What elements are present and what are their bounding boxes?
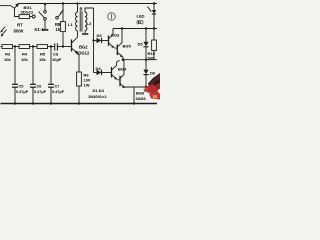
wire top rail left segment bbox=[0, 5, 11, 7]
diode D5 bbox=[145, 29, 147, 42]
wire BG1 base stem bbox=[15, 8, 20, 16]
resistor RT bbox=[19, 15, 30, 19]
wire BG2 emitter down bbox=[78, 54, 79, 72]
switch K1-1 bbox=[44, 4, 46, 11]
watermark red logo bbox=[144, 73, 161, 100]
svg-text:C8: C8 bbox=[53, 52, 59, 57]
transistor BG5 bbox=[116, 45, 118, 56]
svg-text:D4: D4 bbox=[96, 66, 102, 71]
secondary end bar bbox=[82, 33, 88, 35]
capacitor C7 bbox=[50, 47, 52, 85]
svg-text:C7: C7 bbox=[55, 85, 60, 89]
diode D3 bbox=[94, 40, 97, 42]
resistor R8 bbox=[61, 22, 66, 32]
node dot D3 junction bbox=[92, 39, 94, 41]
resistor R6 bbox=[77, 72, 82, 86]
node dot rail/transformer primary bbox=[76, 2, 78, 4]
svg-text:3DG12: 3DG12 bbox=[21, 10, 34, 15]
svg-text:BG2: BG2 bbox=[79, 45, 88, 50]
node dot bus1/D5 bbox=[145, 27, 147, 29]
svg-text:1N4001×2: 1N4001×2 bbox=[88, 94, 107, 99]
svg-text:3AD6: 3AD6 bbox=[136, 96, 147, 101]
svg-text:R5: R5 bbox=[40, 52, 46, 57]
svg-text:L1: L1 bbox=[68, 22, 73, 27]
svg-text:(红): (红) bbox=[137, 19, 145, 26]
capacitor C8 bbox=[54, 43, 56, 50]
wire bus2 bbox=[122, 59, 157, 61]
wire top rail right segment bbox=[18, 3, 157, 5]
svg-text:0.47μF: 0.47μF bbox=[16, 90, 29, 94]
wire bottom rail bbox=[1, 103, 158, 105]
svg-text:R3: R3 bbox=[5, 52, 11, 57]
node dot wire87/D6 bbox=[145, 86, 147, 88]
svg-text:BG4: BG4 bbox=[118, 67, 127, 72]
transformer core bbox=[79, 11, 81, 31]
svg-text:500: 500 bbox=[148, 55, 155, 60]
node dot rail/R8 bbox=[62, 2, 64, 4]
wire R8 top bbox=[62, 4, 64, 22]
svg-text:LED: LED bbox=[137, 14, 145, 19]
node dot rail/K1-1 bbox=[44, 3, 46, 5]
wire emitter bus y87 bbox=[123, 86, 151, 88]
svg-text:C6: C6 bbox=[37, 85, 42, 89]
node dot row/R8/base BG2 bbox=[62, 45, 64, 47]
resistor R5 bbox=[37, 45, 48, 49]
node dot bus2 left bbox=[122, 58, 125, 61]
svg-text:10k: 10k bbox=[21, 57, 28, 62]
svg-text:1W: 1W bbox=[84, 83, 90, 88]
svg-text:BG5: BG5 bbox=[123, 44, 132, 49]
annotation circled 1 bbox=[108, 13, 116, 21]
node dot rail/LED branch bbox=[153, 2, 155, 4]
svg-text:R4: R4 bbox=[22, 52, 28, 57]
resistor R3 bbox=[1, 46, 3, 48]
transformer B primary L1 bbox=[77, 4, 79, 13]
diode D4 bbox=[94, 72, 97, 74]
wire secondary feed vertical bbox=[93, 8, 95, 73]
transformer secondary L2 bbox=[85, 12, 87, 31]
capacitor C5 bbox=[14, 47, 16, 85]
svg-text:5000: 5000 bbox=[14, 29, 24, 34]
svg-text:D5: D5 bbox=[138, 42, 144, 47]
resistor R10 bbox=[153, 29, 155, 41]
switch K1-2 bbox=[56, 17, 59, 20]
node dot row/C6 bbox=[32, 45, 34, 47]
svg-text:3DG12: 3DG12 bbox=[76, 51, 90, 56]
node dot bus1/LED-R10 bbox=[153, 27, 155, 29]
svg-text:D1.D4: D1.D4 bbox=[93, 88, 105, 93]
svg-text:10μF: 10μF bbox=[52, 57, 62, 62]
capacitor C6 bbox=[32, 47, 34, 85]
svg-text:0.47μF: 0.47μF bbox=[52, 90, 65, 94]
LED bbox=[153, 4, 155, 11]
wire R8 bottom bbox=[62, 32, 64, 47]
svg-text:BG3: BG3 bbox=[111, 33, 120, 38]
svg-text:D3: D3 bbox=[97, 33, 103, 38]
transistor BG1 (series pass, V-dip in rail) bbox=[11, 6, 15, 9]
transistor BG4 bbox=[111, 67, 113, 78]
svg-text:B: B bbox=[80, 7, 83, 12]
svg-text:L2: L2 bbox=[87, 21, 92, 26]
svg-text:RT: RT bbox=[17, 23, 23, 28]
node terminal circle after RT bbox=[32, 15, 35, 18]
svg-text:1k: 1k bbox=[56, 27, 61, 32]
resistor R4 bbox=[19, 45, 30, 49]
svg-text:15k: 15k bbox=[39, 57, 46, 62]
node dot row/C5 bbox=[14, 45, 16, 47]
svg-text:C5: C5 bbox=[19, 85, 24, 89]
terminal bar under K1-1 bbox=[42, 29, 48, 31]
transistor BG6 bbox=[119, 76, 121, 87]
svg-text:K1-1: K1-1 bbox=[35, 27, 45, 32]
wire down to bottom rail bbox=[133, 87, 135, 104]
transistor BG3 bbox=[108, 36, 110, 46]
node dot row/C7 bbox=[50, 45, 52, 47]
node dot bus1/BG5 collector bbox=[121, 27, 123, 29]
svg-text:10k: 10k bbox=[4, 57, 11, 62]
svg-text:BG6: BG6 bbox=[136, 91, 145, 96]
svg-text:D6: D6 bbox=[150, 71, 156, 76]
light arrows onto RT bbox=[0, 27, 6, 37]
wire bus1 bbox=[113, 28, 157, 30]
svg-text:0.47μF: 0.47μF bbox=[34, 90, 47, 94]
node dot bus2/D6 bbox=[145, 59, 147, 61]
transistor BG2 bbox=[71, 40, 73, 52]
diode D6 bbox=[145, 60, 147, 70]
